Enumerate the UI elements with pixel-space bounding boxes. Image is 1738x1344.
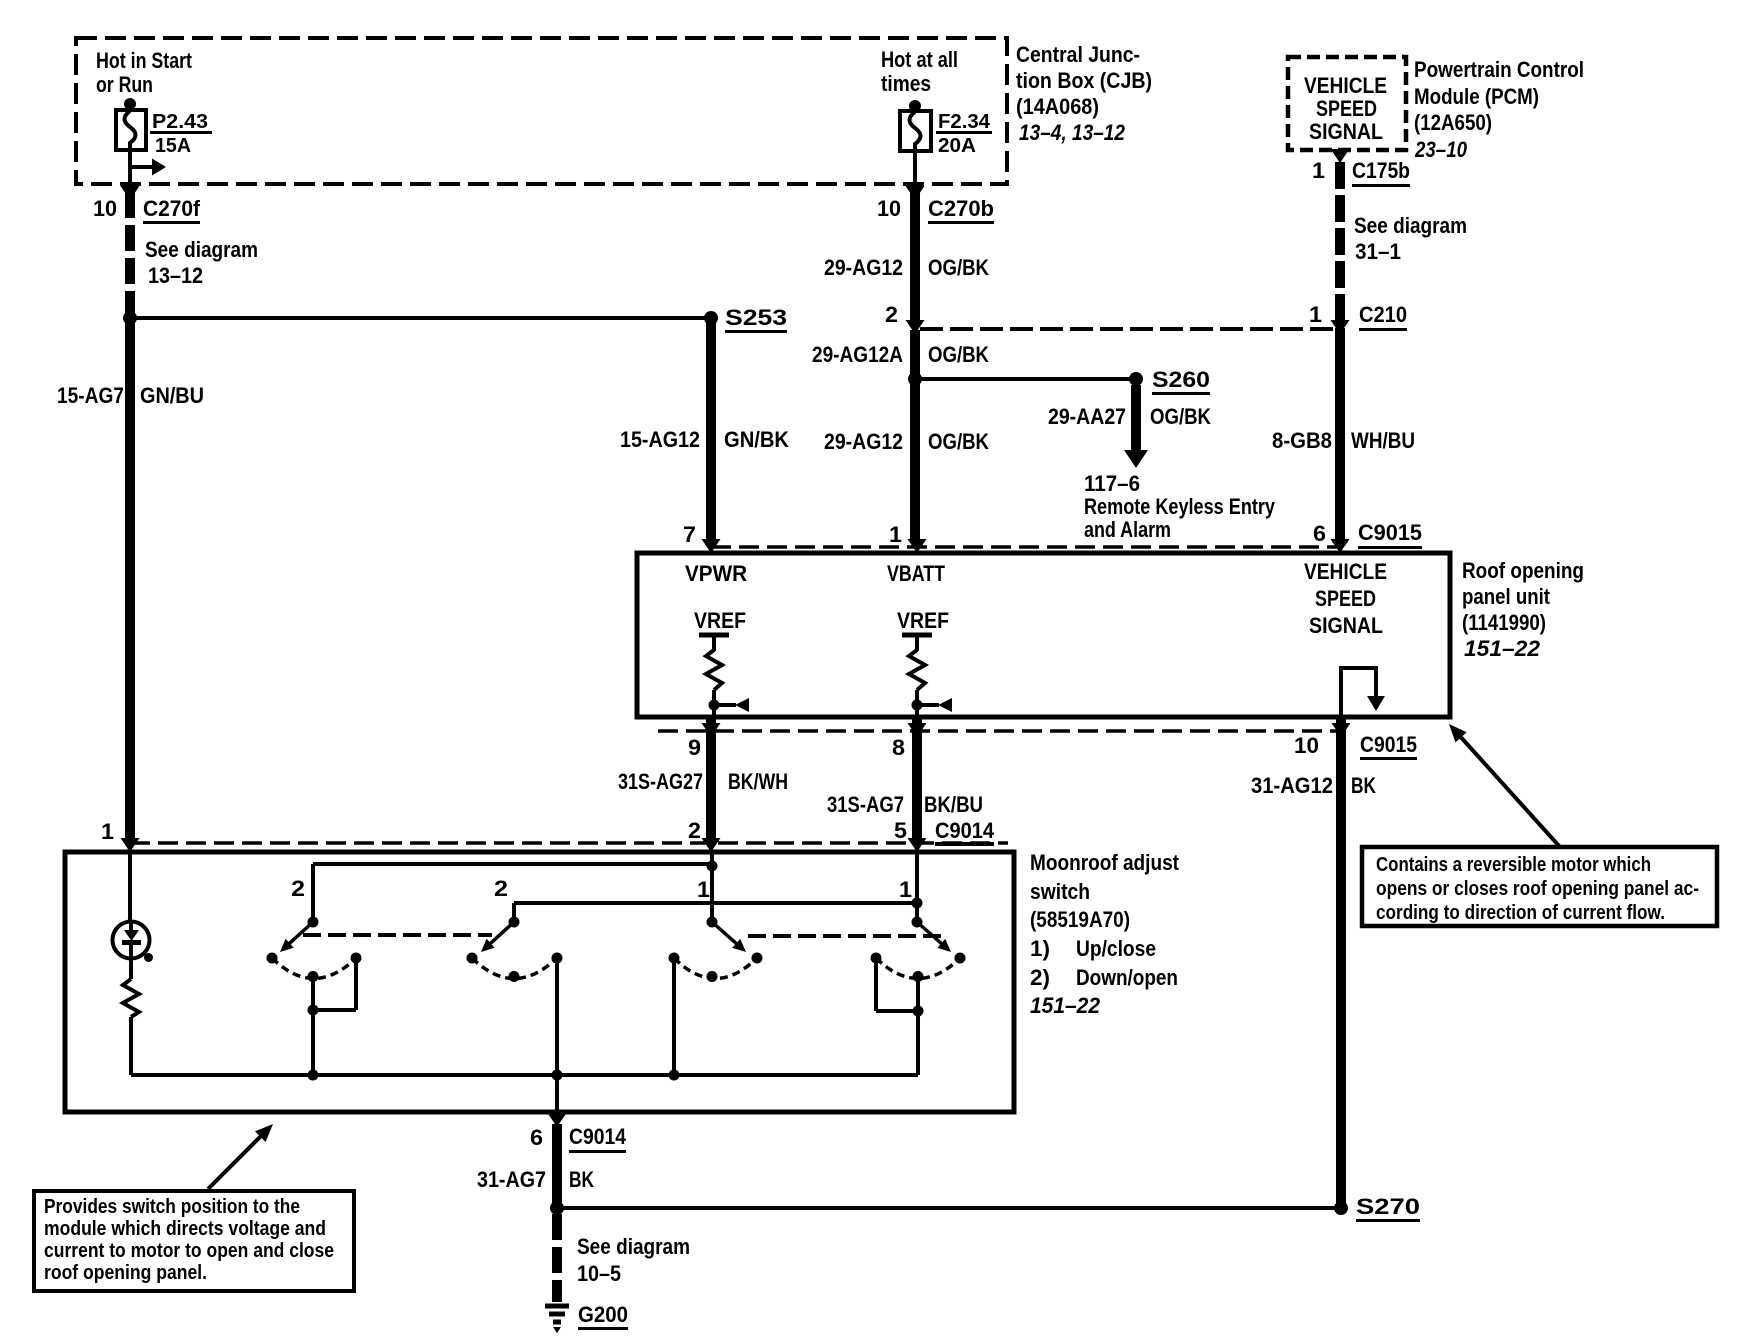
svg-text:G200: G200 [578,1302,628,1327]
switch SW1 contacts [267,953,362,983]
svg-text:roof opening panel.: roof opening panel. [44,1262,207,1284]
svg-text:C9014: C9014 [935,818,995,843]
svg-text:15-AG7: 15-AG7 [57,383,124,408]
label Hot in Start / or Run [96,48,193,97]
svg-text:10–5: 10–5 [577,1261,621,1286]
label Hot at all times [881,47,958,96]
node S253 [704,311,718,325]
moonroof adjust switch box [65,852,1014,1112]
svg-text:Up/close: Up/close [1076,936,1156,961]
wire arrow out of roof unit pin 8 [908,723,927,737]
switch SW3 lever (up/close) [712,922,746,952]
wire 15-AG7 GN/BU dashed segment from C270f [125,192,135,318]
svg-text:2: 2 [688,818,701,843]
connector C9014 pin 6 labels [530,1124,627,1153]
svg-text:20A: 20A [938,135,976,157]
pin 1 label at C9014 [101,819,114,844]
svg-text:SIGNAL: SIGNAL [1309,119,1383,144]
wire fuse P2.43 exit arrow at CJB edge [121,186,140,200]
node junction to S270 [550,1201,564,1215]
wire switch position-2 link (top internal) [313,862,712,866]
node S270 [1334,1201,1348,1215]
label VEHICLE SPEED SIGNAL (PCM) [1304,73,1387,144]
svg-text:times: times [881,71,931,96]
node junction pin2 wire and position-2 link [707,861,718,872]
svg-text:VEHICLE: VEHICLE [1304,559,1387,584]
wire SW4 left contact loop [876,958,918,1011]
svg-text:Central Junc-: Central Junc- [1016,42,1140,67]
svg-text:8: 8 [892,735,905,760]
svg-text:See diagram: See diagram [1354,213,1467,238]
connector C175b pin 1 labels [1312,158,1410,187]
roof opening panel unit box [637,553,1450,717]
fuse P2.43 15A [116,98,146,186]
svg-text:VREF: VREF [897,608,949,633]
svg-text:OG/BK: OG/BK [928,342,989,367]
svg-text:Powertrain Control: Powertrain Control [1414,57,1584,82]
wire arrow below PCM box [1331,149,1350,163]
svg-text:F2.34: F2.34 [938,111,991,133]
svg-text:SPEED: SPEED [1315,586,1376,611]
mechanical link SW1-SW2 dashed [303,933,492,937]
svg-text:(1141990): (1141990) [1462,610,1546,635]
net label VREF of VREF sensor (left) [694,608,746,633]
wire dashed to ground (see diagram 10-5) [552,1214,562,1302]
svg-text:C9015: C9015 [1360,732,1417,757]
label S253 [725,305,787,333]
svg-text:1: 1 [101,819,114,844]
wire SW1 center contact down [311,976,315,1075]
svg-text:tion Box (CJB): tion Box (CJB) [1016,68,1152,93]
wire switch pin 1 to lamp [128,852,132,922]
svg-text:Hot at all: Hot at all [881,47,958,72]
svg-text:Module (PCM): Module (PCM) [1414,84,1539,109]
svg-text:switch: switch [1030,879,1090,904]
callout arrow to moonroof switch box [208,1124,273,1189]
wire tap from pin-6 wire to S270 [557,1206,1341,1210]
node bus junction SW3 [669,1070,680,1081]
svg-text:VPWR: VPWR [685,561,747,586]
callout text: provides switch position note [44,1196,334,1284]
wire 31-AG7 BK from pin 6 [552,1124,562,1208]
switch SW1 pivot [308,917,319,928]
svg-text:C270f: C270f [143,196,201,221]
wire 31-AG12 BK (pin 10 to S270) [1336,717,1346,1208]
wire tap from left column to S253 [130,316,706,320]
label 31S-AG27 BK/WH [618,769,788,794]
pin 6 label and connector C9015 (top) [1313,520,1422,549]
svg-text:117–6: 117–6 [1084,471,1140,496]
wire 15-AG7 GN/BU down to moonroof switch pin 1 [125,318,135,840]
connector C210 pin 1 labels [1309,302,1407,331]
switch SW1 lever (down/open) [280,922,313,952]
svg-text:9: 9 [688,735,701,760]
wire arrow into roof unit pin 1 [908,539,927,553]
svg-text:BK/WH: BK/WH [728,769,788,794]
svg-text:13–4, 13–12: 13–4, 13–12 [1019,120,1126,145]
svg-text:Remote Keyless Entry: Remote Keyless Entry [1084,494,1276,519]
switch SW3 contacts [669,953,763,983]
svg-text:OG/BK: OG/BK [928,429,989,454]
switch SW4 rocker arc [876,958,960,979]
switch position label 1 (third) [697,877,710,902]
svg-text:15-AG12: 15-AG12 [620,427,700,452]
svg-text:1: 1 [899,877,912,902]
svg-text:OG/BK: OG/BK [928,255,989,280]
svg-text:P2.43: P2.43 [152,111,208,133]
switch SW4 pivot [912,917,923,928]
svg-text:cording to direction of curren: cording to direction of current flow. [1376,902,1665,924]
label See diagram 31-1 [1354,213,1467,264]
switch SW1 rocker arc [272,958,356,979]
svg-text:13–12: 13–12 [148,263,203,288]
svg-text:C9014: C9014 [569,1124,627,1149]
node bus junction SW1 [308,1070,319,1081]
svg-text:(58519A70): (58519A70) [1030,907,1130,932]
wiper contact arrow of VREF sensor (left) [709,698,750,712]
label 29-AA27 OG/BK [1048,404,1211,429]
connector C270f pin 10 labels [93,196,201,224]
svg-text:C210: C210 [1359,302,1407,327]
wire arrow out of roof unit pin 10 [1332,723,1351,737]
wire arrow into switch pin 5 [908,838,927,852]
connector C9015 dashed line (bottom of roof unit) [658,729,1341,733]
svg-text:7: 7 [683,522,696,547]
wire arrow at C210 crossing (middle) [906,320,925,334]
branch arrow from fuse P2.43 [130,159,166,176]
svg-text:2: 2 [291,876,305,901]
wire arrow into switch pin 2 [702,838,721,852]
svg-text:or Run: or Run [96,72,153,97]
switch SW4 contacts [871,953,966,983]
svg-text:C9015: C9015 [1358,520,1422,545]
label 29-AG12 OG/BK (lower) [824,429,989,454]
svg-text:opens or closes roof opening p: opens or closes roof opening panel ac- [1376,878,1699,900]
callout text: reversible motor note [1376,854,1699,924]
svg-text:BK: BK [1351,773,1376,798]
wire 29-AG12 OG/BK from C270b [910,192,920,322]
svg-text:VBATT: VBATT [887,561,945,586]
svg-text:1: 1 [889,522,902,547]
svg-text:6: 6 [1313,521,1326,546]
resistor VREF sensor (right) [902,635,932,717]
wire switch position-2 link (second internal) [514,901,917,905]
svg-text:8-GB8: 8-GB8 [1272,428,1332,453]
label Roof opening panel unit (1141990) 151-22 [1462,558,1584,661]
wire 8-GB8 WH/BU [1335,328,1345,542]
svg-text:2: 2 [494,876,508,901]
svg-text:6: 6 [530,1125,543,1150]
wire tap to S260 [915,377,1132,381]
svg-text:VEHICLE: VEHICLE [1304,73,1387,98]
svg-text:151–22: 151–22 [1030,993,1101,1018]
dashed wire link C210 (middle to PCM column) [920,327,1334,331]
label 31-AG7 BK [477,1167,594,1192]
svg-text:GN/BK: GN/BK [724,427,789,452]
svg-text:SPEED: SPEED [1316,96,1377,121]
svg-text:See diagram: See diagram [145,237,258,262]
svg-text:Contains a reversible motor wh: Contains a reversible motor which [1376,854,1651,876]
svg-text:C175b: C175b [1352,158,1410,183]
node SW4 loop junction [913,1006,924,1017]
label Moonroof adjust switch (58519A70) 1) Up/close 2) Down/open 151-22 [1030,850,1180,1018]
svg-text:Provides switch position to th: Provides switch position to the [44,1196,300,1218]
net label VPWR [685,561,747,586]
svg-text:Down/open: Down/open [1076,965,1178,990]
wire 15-AG12 GN/BK from S253 to roof unit pin 7 [706,318,716,542]
node junction pin5 wire and second link [912,898,923,909]
svg-text:current to motor to open and c: current to motor to open and close [44,1240,334,1262]
wire 31S-AG27 BK/WH (pin 9 to switch pin 2) [706,717,716,840]
motor drive output symbol (roof unit) [1341,668,1385,715]
pin 7 label (roof unit VPWR) [683,522,696,547]
svg-text:BK: BK [569,1167,594,1192]
node SW1 loop junction [308,1005,319,1016]
svg-text:See diagram: See diagram [577,1234,690,1259]
svg-text:(12A650): (12A650) [1414,110,1492,135]
switch position label 1 (fourth) [899,877,912,902]
node junction on left wire at S253 tap [123,311,137,325]
wire fuse F2.34 exit arrow at CJB edge [906,186,925,200]
switch SW2 rocker arc [472,958,557,979]
svg-text:VREF: VREF [694,608,746,633]
wire SW3 left contact to common bus [672,958,676,1075]
PCM VEHICLE SPEED SIGNAL dashed box [1288,57,1406,150]
label 15-AG7 GN/BU [57,383,204,408]
svg-text:module which directs voltage a: module which directs voltage and [44,1218,326,1240]
pin 2 label at C210 [885,302,898,327]
switch position label 2 (second) [494,876,508,901]
svg-text:Moonroof adjust: Moonroof adjust [1030,850,1180,875]
svg-text:S260: S260 [1152,367,1210,392]
net label VEHICLE SPEED SIGNAL (roof unit) [1304,559,1387,638]
wiper contact arrow of VREF sensor (right) [912,698,953,712]
svg-text:WH/BU: WH/BU [1351,428,1415,453]
wire arrow out of roof unit pin 9 [702,723,721,737]
svg-text:1: 1 [697,877,710,902]
label 29-AG12A OG/BK [812,342,989,367]
svg-text:10: 10 [1294,733,1319,758]
pin 1 label (roof unit VBATT) [889,522,902,547]
svg-text:SIGNAL: SIGNAL [1309,613,1383,638]
svg-text:BK/BU: BK/BU [924,792,983,817]
wire pin 2 into switch contact 3 [710,852,714,922]
svg-text:23–10: 23–10 [1414,137,1467,162]
svg-text:31S-AG7: 31S-AG7 [827,792,904,817]
net label VREF of VREF sensor (right) [897,608,949,633]
connector C270b pin 10 labels [877,196,994,224]
wire arrow out of switch pin 6 [548,1113,567,1127]
ground G200 symbol [545,1306,569,1333]
label 117-6 Remote Keyless Entry and Alarm [1084,471,1276,542]
wire SW4 junction to common bus [916,1011,920,1075]
label 29-AG12 OG/BK (upper) [824,255,989,280]
svg-text:10: 10 [93,196,117,221]
svg-text:10: 10 [877,196,901,221]
svg-text:29-AG12A: 29-AG12A [812,342,903,367]
switch SW2 contacts [467,953,563,983]
svg-text:15A: 15A [155,135,191,157]
svg-text:1: 1 [1309,302,1322,327]
label 15-AG12 GN/BK [620,427,789,452]
Central Junction Box (CJB) dashed outline [76,38,1007,184]
label See diagram 13-12 (left) [145,237,258,288]
label P2.43 / 15A [150,111,212,157]
pin 5 label and connector C9014 (top) [894,818,995,846]
switch SW2 feed wire [512,903,516,922]
svg-text:Hot in Start: Hot in Start [96,48,193,73]
wire arrow into roof unit pin 7 [702,539,721,553]
connector C9014 dashed line (top of switch) [130,841,1008,845]
switch SW4 lever (up/close) [917,922,951,952]
wire 31S-AG7 BK/BU (pin 8 to switch pin 5) [912,717,922,840]
label 31-AG12 BK [1251,773,1376,798]
label Powertrain Control Module (PCM) (12A650) 23-10 [1414,57,1584,162]
fuse F2.34 20A [900,100,931,186]
label Central Junction Box (CJB) (14A068) 13-4, 13-12 [1016,42,1152,145]
wire vehicle speed signal dashed (see diagram 31-1) [1335,162,1345,320]
svg-text:S270: S270 [1356,1194,1420,1219]
svg-text:C270b: C270b [928,196,994,221]
svg-text:31–1: 31–1 [1355,239,1401,264]
wire arrow into switch pin 1 [121,838,140,852]
node bus junction pin 6 [552,1070,563,1081]
switch SW2 pivot [509,917,520,928]
svg-text:29-AG12: 29-AG12 [824,429,903,454]
resistor VREF sensor (left) [699,635,729,717]
svg-text:(14A068): (14A068) [1016,94,1099,119]
wire switch common bus [131,1073,918,1077]
label G200 [578,1302,628,1330]
mechanical link SW3-SW4 dashed [748,934,944,938]
callout arrow to roof unit corner [1449,724,1560,847]
svg-text:1: 1 [1312,158,1325,183]
switch SW2 lever (down/open) [481,922,514,952]
wire SW1 right contact loop [313,958,356,1010]
pin 9 label [688,735,701,760]
svg-text:1): 1) [1030,936,1050,961]
wire SW2 right contact to common bus [555,958,559,1075]
svg-text:panel unit: panel unit [1462,584,1551,609]
switch SW3 rocker arc [674,958,757,979]
node S260 [1129,372,1143,386]
svg-text:29-AG12: 29-AG12 [824,255,903,280]
label 8-GB8 WH/BU [1272,428,1415,453]
svg-text:31-AG12: 31-AG12 [1251,773,1333,798]
svg-text:2): 2) [1030,965,1050,990]
svg-text:29-AA27: 29-AA27 [1048,404,1126,429]
node junction to S260 [908,372,922,386]
svg-text:151–22: 151–22 [1464,636,1541,661]
resistor below lamp [123,958,139,1075]
svg-text:GN/BU: GN/BU [140,383,204,408]
wire 29-AA27 OG/BK arrow to Remote Keyless Entry [1124,385,1148,468]
connector C9015 dashed line (top of roof unit) [711,545,1341,549]
svg-text:and Alarm: and Alarm [1084,517,1171,542]
svg-text:Roof opening: Roof opening [1462,558,1584,583]
svg-text:2: 2 [885,302,898,327]
wire arrow at C210 (PCM column) [1331,320,1350,334]
wire 29-AG12A OG/BK [910,330,920,542]
switch SW3 pivot [707,917,718,928]
wire arrow into roof unit pin 6 [1331,539,1350,553]
svg-text:31S-AG27: 31S-AG27 [618,769,703,794]
label See diagram 10-5 [577,1234,690,1286]
label S260 [1152,367,1210,395]
pin 10 label and connector C9015 (bottom) [1294,732,1417,760]
wire common bus to pin 6 exit [555,1075,559,1113]
net label VBATT [887,561,945,586]
switch contact SW1 feed wire [311,864,315,922]
svg-text:31-AG7: 31-AG7 [477,1167,546,1192]
switch position label 2 (first) [291,876,305,901]
label 31S-AG7 BK/BU [827,792,983,817]
svg-text:S253: S253 [725,305,787,330]
svg-text:5: 5 [894,818,907,843]
wire pin 5 into switch contact 4 [915,852,919,922]
callout box: reversible motor note [1362,847,1717,926]
callout box: provides switch position note [34,1191,354,1291]
label F2.34 / 20A [936,111,992,157]
label S270 [1356,1194,1420,1222]
pin 2 label at C9014 [688,818,701,843]
svg-text:OG/BK: OG/BK [1150,404,1211,429]
indicator lamp in switch [113,922,154,963]
pin 8 label [892,735,905,760]
